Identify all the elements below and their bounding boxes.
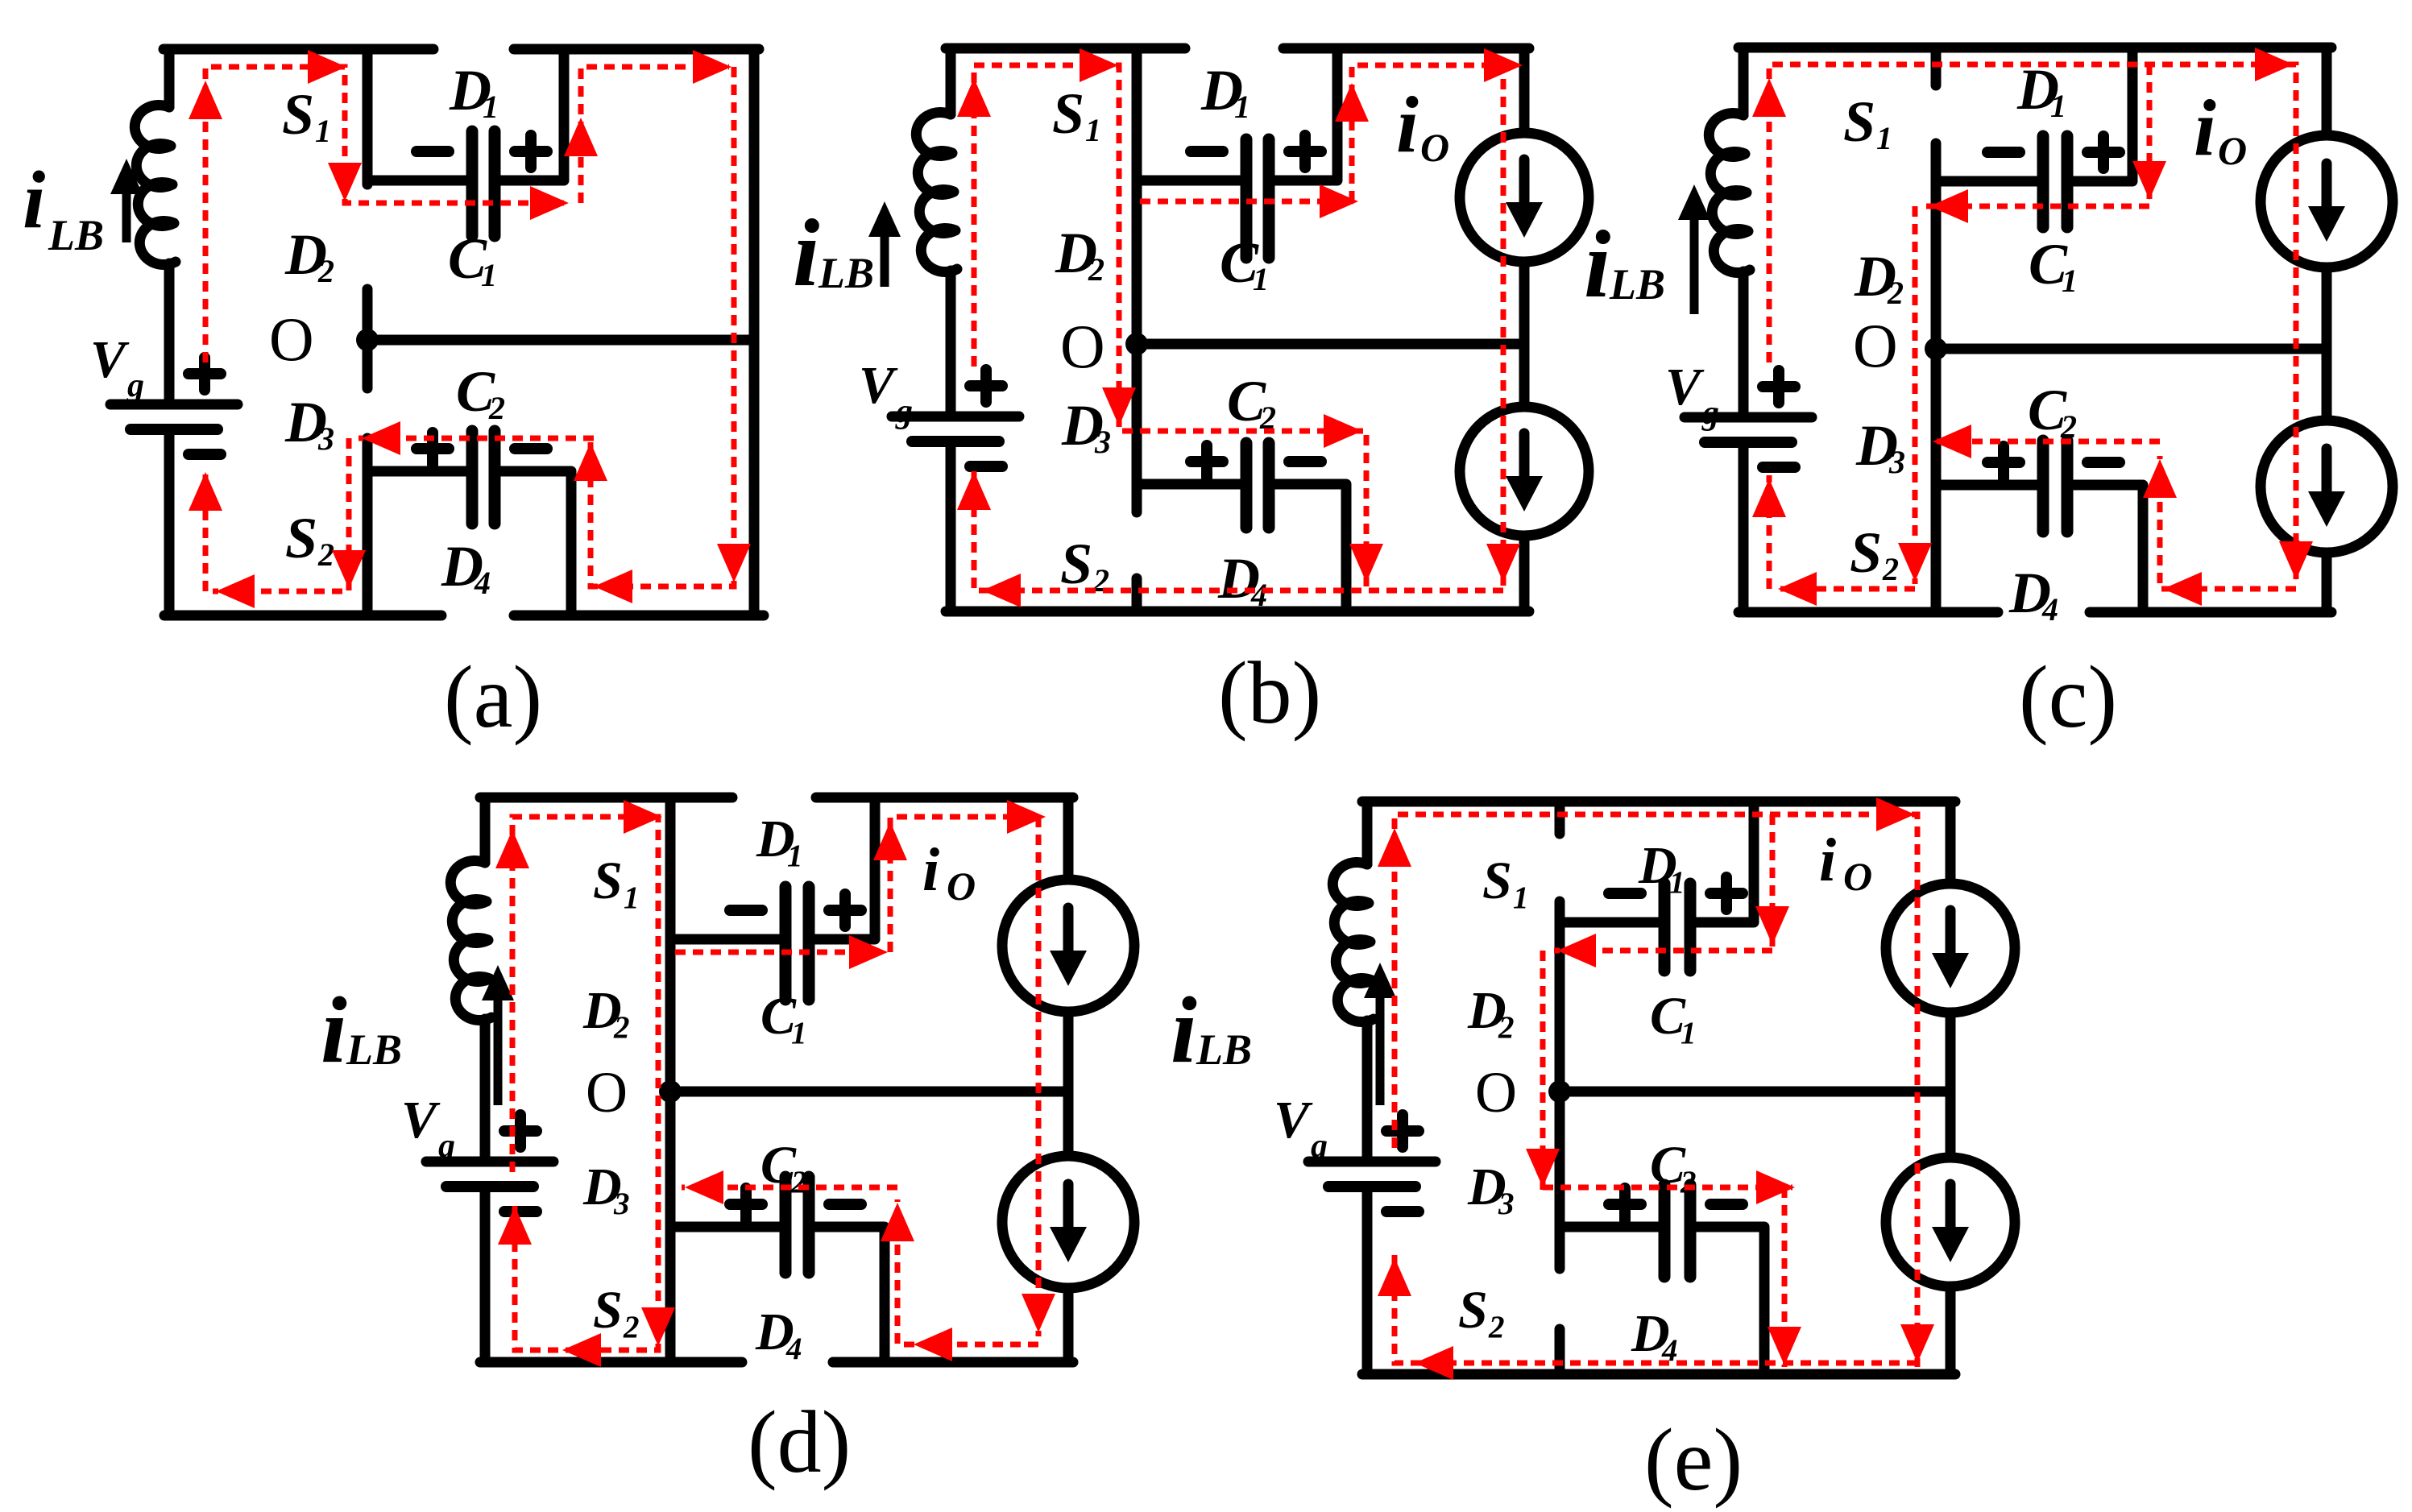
svg-text:3: 3	[1888, 444, 1905, 480]
svg-text:2: 2	[1488, 1310, 1505, 1344]
svg-text:g: g	[1701, 395, 1719, 432]
wire top segment 1 fig d	[480, 793, 732, 803]
svg-text:O: O	[2218, 128, 2247, 173]
capacitor C1 fig b plates	[1241, 139, 1253, 258]
wire bottom segment 1 fig c	[1739, 607, 1998, 618]
svg-text:1: 1	[1669, 865, 1685, 900]
red path via C1 fig d	[675, 950, 886, 955]
capacitor C2 fig d plates	[780, 1177, 792, 1273]
wire top segment 1 fig c	[1739, 43, 2331, 53]
inductor L_B fig d	[450, 860, 491, 1020]
wire C1 right lead fig e	[1697, 802, 1754, 922]
wire C1 left lead fig d	[670, 934, 779, 945]
svg-text:LB: LB	[818, 249, 874, 297]
svg-text:S: S	[1482, 851, 1512, 910]
wire bottom segment 1 fig d	[480, 1357, 742, 1368]
wire left side mid fig d	[480, 1019, 491, 1162]
red path via C1 left fig c	[1926, 204, 2149, 209]
svg-text:S: S	[282, 82, 314, 147]
inductor L_B fig c	[1709, 113, 1750, 272]
red path down middle leg fig c	[1913, 206, 1918, 584]
wire bottom segment 1 fig a	[164, 611, 441, 621]
svg-text:1: 1	[1876, 120, 1892, 156]
C2 minus sign fig a	[515, 443, 547, 454]
svg-text:2: 2	[317, 253, 334, 289]
svg-text:1: 1	[2050, 88, 2066, 124]
svg-text:(e): (e)	[1644, 1411, 1743, 1509]
red path boost loop fig a	[205, 67, 564, 362]
wire left side upper fig b	[946, 48, 956, 114]
red path via C2 right fig e	[1543, 1185, 1792, 1191]
capacitor C2 fig e plates	[1659, 1185, 1671, 1277]
svg-text:2: 2	[790, 1165, 807, 1199]
wire top segment 1 fig a	[164, 44, 433, 55]
wire C1 right lead fig c	[2074, 48, 2132, 181]
svg-text:3: 3	[1498, 1187, 1515, 1221]
wire bottom segment 1 fig b	[946, 607, 1529, 617]
battery plus sign fig a	[189, 358, 221, 390]
svg-text:2: 2	[1680, 1165, 1697, 1199]
svg-text:V: V	[90, 330, 130, 389]
wire right side fig a	[749, 49, 760, 615]
middle leg segment 2 fig a	[363, 289, 373, 388]
current source iO2 fig e	[1886, 1158, 2015, 1286]
node O dot fig a	[356, 329, 379, 351]
current source iO1 fig b	[1460, 133, 1589, 262]
svg-text:LB: LB	[1609, 260, 1665, 309]
battery plus sign fig c	[1763, 371, 1795, 403]
svg-text:LB: LB	[48, 211, 104, 259]
C1 plus sign fig a	[515, 135, 547, 168]
current source iO1 fig c	[2261, 135, 2393, 267]
svg-text:O: O	[1060, 312, 1105, 381]
current source iO1 fig d	[1002, 880, 1134, 1012]
svg-text:4: 4	[785, 1332, 802, 1366]
capacitor C1 fig c plates	[2037, 136, 2049, 227]
svg-text:i: i	[321, 977, 347, 1083]
svg-text:i: i	[922, 836, 939, 904]
wire bottom segment 1 fig e	[1362, 1369, 1955, 1380]
svg-text:i: i	[23, 155, 45, 246]
wire top segment 2 fig d	[816, 793, 1073, 803]
red path down to bottom fig e	[1782, 1187, 1788, 1367]
svg-text:i: i	[1396, 80, 1419, 169]
red path bottom left fig c	[1778, 586, 1915, 592]
middle leg segment 2 fig e	[1555, 901, 1565, 1269]
wire left side upper fig a	[164, 49, 175, 107]
wire left side lower fig c	[1739, 448, 1749, 612]
inductor L_B fig a	[135, 105, 176, 264]
red path via C2 left fig a	[358, 436, 594, 441]
C1 minus sign fig c	[1987, 147, 2020, 158]
svg-text:(b): (b)	[1218, 644, 1321, 742]
red path bottom to C2 fig d	[897, 1199, 1038, 1344]
svg-text:V: V	[1274, 1091, 1313, 1150]
current source iO2 fig d	[1002, 1156, 1134, 1288]
svg-text:S: S	[593, 1281, 623, 1340]
red path down leg to D3 fig e	[1540, 951, 1546, 1190]
wire left side lower fig d	[480, 1192, 491, 1362]
wire right side fig c	[2322, 48, 2332, 135]
node O dot fig b	[1125, 333, 1148, 355]
battery plus sign fig d	[504, 1115, 537, 1147]
wire C1 left lead fig e	[1560, 918, 1658, 928]
svg-text:1: 1	[791, 1016, 807, 1050]
wire node O to right fig b	[1137, 339, 1524, 350]
capacitor C1 fig a plates	[466, 131, 479, 236]
svg-text:O: O	[1420, 125, 1449, 170]
red path top long fig c	[1769, 64, 2296, 584]
svg-text:1: 1	[1253, 261, 1269, 297]
svg-text:1: 1	[1513, 880, 1529, 915]
wire node O to right fig e	[1560, 1087, 1950, 1097]
battery Vg fig b short plate	[912, 436, 999, 447]
svg-text:1: 1	[624, 880, 640, 915]
red path to battery minus fig a	[203, 472, 209, 591]
C2 minus sign fig c	[2087, 457, 2120, 468]
svg-text:S: S	[1052, 81, 1084, 146]
wire C2 right lead fig b	[1275, 484, 1346, 611]
red path D1 branch down fig e	[1770, 814, 1776, 947]
svg-text:i: i	[1584, 210, 1610, 317]
svg-text:O: O	[1475, 1060, 1517, 1125]
capacitor C2 fig a plates	[466, 431, 479, 524]
svg-text:LB: LB	[1196, 1025, 1252, 1074]
red path via C1 up to top fig a	[581, 67, 729, 203]
wire C2 left lead fig c	[1936, 480, 2037, 491]
battery Vg fig c short plate	[1705, 437, 1792, 448]
svg-text:4: 4	[2041, 591, 2058, 628]
wire bottom segment 2 fig a	[514, 611, 764, 621]
svg-text:S: S	[1843, 89, 1875, 154]
wire C1 right lead fig b	[1275, 48, 1337, 180]
svg-text:4: 4	[474, 565, 491, 601]
battery plus sign fig b	[970, 370, 1002, 402]
battery minus sign fig d	[504, 1206, 537, 1217]
battery Vg fig a short plate	[131, 424, 218, 435]
inductor L_B fig b	[916, 112, 957, 271]
middle leg segment 1 fig c	[1931, 48, 1942, 85]
svg-text:i: i	[2194, 83, 2216, 172]
svg-text:1: 1	[483, 89, 499, 125]
svg-text:1: 1	[1085, 112, 1101, 148]
svg-text:2: 2	[1088, 251, 1104, 288]
wire C2 right lead fig d	[815, 1227, 885, 1362]
wire right side fig b	[1519, 48, 1530, 133]
red path via C2 to D3 fig d	[682, 1185, 897, 1191]
svg-text:3: 3	[1094, 424, 1111, 460]
middle leg segment 1 fig a	[363, 49, 373, 184]
wire C2 left lead fig a	[367, 466, 466, 477]
inductor L_B fig e	[1332, 862, 1374, 1021]
svg-text:O: O	[586, 1060, 628, 1125]
wire C1 right lead fig a	[501, 49, 564, 180]
middle leg segment 2 fig c	[1931, 143, 1942, 612]
battery Vg fig e long plate	[1308, 1157, 1436, 1167]
red path C1 up top right down fig d	[890, 817, 1038, 1336]
svg-text:2: 2	[613, 1010, 630, 1045]
svg-text:i: i	[1819, 826, 1836, 894]
svg-text:O: O	[1843, 854, 1872, 899]
wire C2 left lead fig d	[670, 1222, 779, 1232]
battery Vg fig a long plate	[110, 400, 238, 410]
C1 plus sign fig b	[1289, 135, 1321, 168]
battery Vg fig d short plate	[446, 1181, 533, 1192]
C1 plus sign fig c	[2087, 136, 2120, 168]
C2 plus sign fig d	[730, 1188, 762, 1220]
inductor current arrow fig b	[881, 234, 889, 287]
capacitor C2 fig b plates	[1241, 443, 1253, 528]
wire node O to right fig a	[367, 335, 754, 346]
svg-text:1: 1	[1234, 89, 1250, 125]
svg-text:i: i	[1171, 977, 1197, 1083]
svg-text:(d): (d)	[748, 1393, 851, 1491]
C2 plus sign fig c	[1987, 446, 2020, 478]
battery Vg fig e short plate	[1328, 1181, 1415, 1192]
svg-text:g: g	[126, 367, 144, 404]
svg-text:2: 2	[488, 390, 505, 426]
wire left side mid fig e	[1362, 1021, 1373, 1162]
svg-text:2: 2	[1887, 275, 1904, 311]
wire left side mid fig c	[1739, 271, 1749, 417]
svg-text:2: 2	[1882, 551, 1899, 587]
C1 minus sign fig d	[730, 905, 762, 916]
wire C1 left lead fig a	[367, 176, 466, 186]
svg-text:2: 2	[317, 536, 334, 573]
wire node O to right fig d	[670, 1087, 1068, 1097]
red path C1 up and right side down fig b	[1352, 65, 1503, 586]
wire left side mid fig b	[946, 271, 956, 416]
red path main loop fig d	[512, 817, 658, 1350]
svg-text:2: 2	[1498, 1010, 1515, 1045]
wire left side lower fig b	[946, 447, 956, 611]
wire C1 left lead fig c	[1936, 176, 2037, 187]
wire C2 right lead fig e	[1697, 1227, 1764, 1374]
C2 plus sign fig e	[1609, 1188, 1641, 1220]
middle leg segment 2 fig b	[1132, 578, 1142, 611]
svg-text:2: 2	[623, 1310, 640, 1344]
svg-text:1: 1	[481, 257, 497, 293]
inductor current arrow fig c	[1690, 217, 1699, 314]
svg-text:i: i	[793, 199, 819, 306]
red path bottom return fig e	[1395, 1254, 1917, 1363]
svg-text:S: S	[285, 506, 317, 570]
svg-text:4: 4	[1250, 577, 1267, 613]
svg-text:1: 1	[315, 113, 331, 149]
current source iO2 fig b	[1460, 407, 1589, 536]
wire top segment 1 fig b	[946, 43, 1185, 54]
svg-text:3: 3	[613, 1187, 630, 1221]
battery plus sign fig e	[1386, 1115, 1419, 1147]
svg-text:O: O	[1853, 311, 1898, 380]
wire left side lower fig e	[1362, 1192, 1373, 1374]
svg-text:1: 1	[2062, 263, 2078, 299]
svg-text:(a): (a)	[444, 648, 542, 746]
red path to battery minus fig c	[1767, 475, 1772, 589]
svg-text:S: S	[1060, 532, 1092, 596]
capacitor C1 fig e plates	[1659, 884, 1671, 971]
inductor current arrow fig e	[1376, 995, 1385, 1105]
C2 minus sign fig b	[1289, 456, 1321, 467]
capacitor C2 fig c plates	[2037, 441, 2049, 532]
wire left side mid fig a	[164, 263, 175, 404]
C2 minus sign fig d	[829, 1199, 861, 1210]
battery Vg fig c long plate	[1685, 412, 1812, 423]
svg-text:O: O	[947, 864, 976, 909]
middle leg segment 1 fig b	[1132, 48, 1142, 512]
wire right side fig d	[1063, 797, 1074, 880]
wire C2 right lead fig c	[2074, 485, 2143, 612]
svg-text:S: S	[1458, 1281, 1488, 1340]
current source iO1 fig e	[1886, 884, 2015, 1013]
wire right side fig e	[1946, 802, 1956, 884]
C1 minus sign fig b	[1191, 146, 1223, 157]
C2 plus sign fig a	[417, 433, 449, 465]
wire bottom segment 2 fig d	[833, 1357, 1073, 1368]
node O dot fig d	[659, 1080, 682, 1103]
middle leg segment 3 fig e	[1555, 1329, 1565, 1374]
svg-text:g: g	[895, 393, 913, 430]
wire left side upper fig d	[480, 797, 491, 863]
battery minus sign fig b	[970, 461, 1002, 472]
wire top segment 2 fig a	[514, 44, 759, 55]
svg-text:S: S	[593, 851, 623, 910]
capacitor C1 fig d plates	[780, 887, 792, 1000]
red path bottom right up C2 fig c	[2160, 456, 2296, 589]
red path right side down fig a	[591, 67, 734, 586]
wire top segment 1 fig e	[1362, 797, 1955, 807]
svg-text:O: O	[269, 304, 314, 374]
svg-text:(c): (c)	[2019, 648, 2117, 746]
node O dot fig c	[1925, 338, 1947, 360]
red path boost loop fig b	[974, 65, 1366, 586]
middle leg segment 1 fig e	[1555, 802, 1565, 834]
wire left side upper fig c	[1739, 48, 1749, 115]
wire C2 left lead fig e	[1560, 1222, 1658, 1232]
C1 minus sign fig a	[417, 146, 449, 157]
svg-text:LB: LB	[346, 1025, 402, 1074]
wire C1 left lead fig b	[1137, 176, 1240, 186]
inductor current arrow fig d	[494, 997, 503, 1105]
middle leg segment 1 fig d	[665, 797, 676, 1362]
C1 plus sign fig e	[1710, 877, 1743, 909]
battery minus sign fig a	[189, 449, 221, 460]
battery Vg fig d long plate	[426, 1157, 553, 1167]
svg-text:g: g	[1310, 1128, 1328, 1165]
C1 plus sign fig d	[829, 894, 861, 926]
node O dot fig e	[1548, 1080, 1571, 1103]
C2 plus sign fig b	[1191, 445, 1223, 478]
red path down S2 fig a	[213, 438, 349, 591]
svg-text:g: g	[437, 1128, 455, 1165]
wire top segment 2 fig b	[1283, 43, 1529, 54]
svg-text:3: 3	[317, 420, 334, 457]
wire C2 left lead fig b	[1137, 479, 1240, 490]
wire node O to right fig c	[1936, 344, 2327, 354]
battery minus sign fig e	[1386, 1206, 1419, 1217]
svg-text:1: 1	[787, 839, 803, 873]
current source iO2 fig c	[2261, 420, 2393, 553]
svg-text:V: V	[401, 1091, 441, 1150]
red path D1 branch down fig c	[2147, 64, 2153, 201]
wire bottom segment 2 fig c	[2090, 607, 2331, 618]
C1 minus sign fig e	[1609, 888, 1641, 899]
inductor current arrow fig a	[122, 191, 131, 242]
wire left side lower fig a	[164, 435, 175, 615]
battery minus sign fig c	[1763, 462, 1795, 473]
red path via C1 fig b	[1140, 199, 1353, 205]
wire C2 right lead fig a	[501, 471, 571, 615]
middle leg segment 3 fig a	[363, 438, 373, 615]
svg-text:V: V	[859, 356, 898, 415]
red path bottom return fig b	[974, 468, 1503, 590]
svg-text:V: V	[1665, 358, 1705, 416]
C2 minus sign fig e	[1710, 1199, 1743, 1210]
wire C1 right lead fig d	[815, 797, 875, 939]
wire left side upper fig e	[1362, 802, 1373, 864]
svg-text:S: S	[1850, 520, 1882, 585]
battery Vg fig b long plate	[892, 412, 1019, 422]
red path via C1 left fig e	[1554, 948, 1772, 954]
red path outer loop fig e	[1395, 814, 1917, 1367]
svg-text:1: 1	[1681, 1016, 1697, 1050]
red path via C2 left fig c	[1929, 439, 2160, 445]
